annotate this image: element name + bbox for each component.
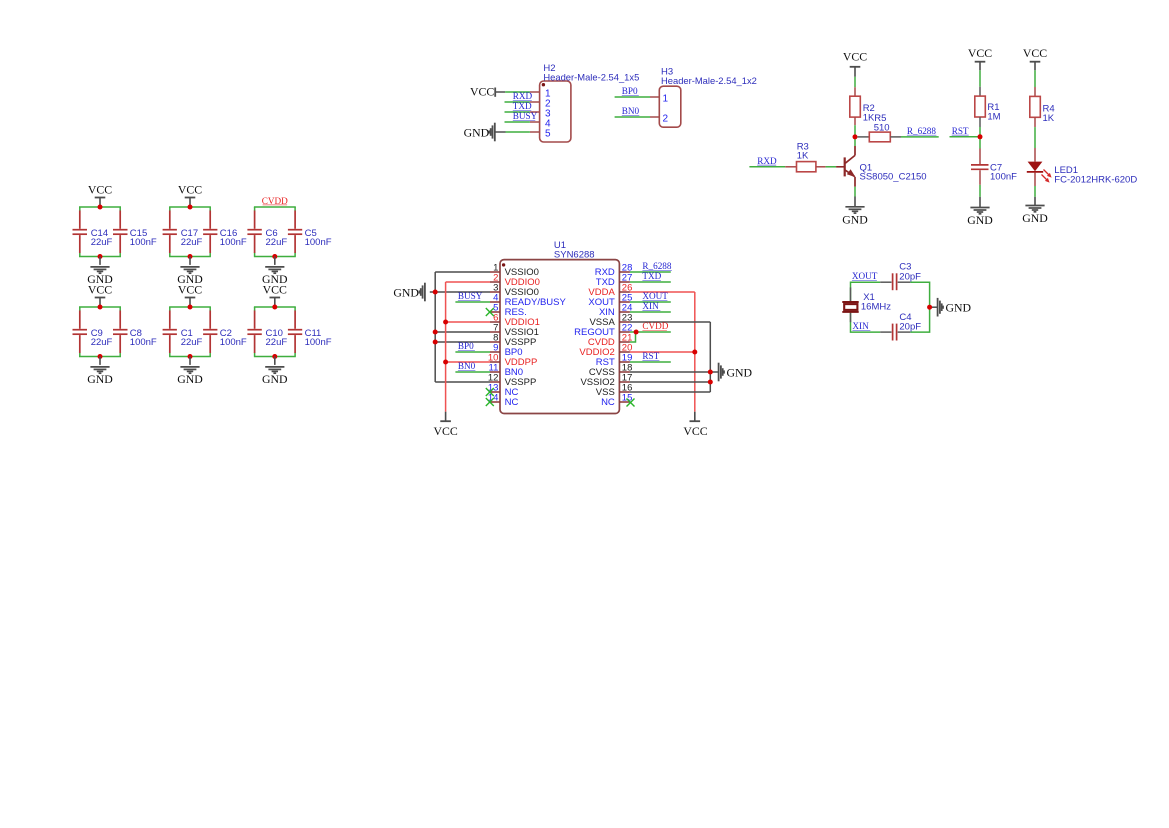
- pin 1 marker dot: [502, 263, 505, 266]
- capacitor C8: [113, 311, 157, 354]
- net label BUSY: [513, 111, 538, 121]
- svg-text:510: 510: [874, 122, 890, 133]
- ground: [177, 357, 203, 387]
- capacitor C9: [73, 311, 113, 354]
- wire: [455, 351, 490, 353]
- junction: [98, 205, 103, 210]
- resistor R5 510: [858, 113, 901, 142]
- wire: [435, 331, 490, 333]
- power flag VCC: [178, 283, 202, 307]
- svg-text:22uF: 22uF: [181, 337, 203, 348]
- svg-text:VCC: VCC: [88, 183, 112, 197]
- wire: [950, 136, 981, 138]
- pin 14 NC: [488, 393, 519, 409]
- wire: [615, 96, 650, 98]
- svg-text:RST: RST: [642, 351, 659, 361]
- svg-text:VCC: VCC: [88, 283, 112, 297]
- wire: [901, 136, 939, 138]
- wire: [446, 361, 490, 363]
- resistor R1 1M: [975, 87, 1001, 127]
- pin 13 NC: [488, 383, 519, 399]
- wire: [435, 341, 490, 343]
- svg-text:GND: GND: [464, 126, 490, 140]
- junction: [433, 330, 438, 335]
- svg-text:VCC: VCC: [1023, 46, 1047, 60]
- ic U1 SYN6288: [500, 240, 619, 413]
- power flag VCC: [843, 50, 867, 77]
- svg-text:22uF: 22uF: [91, 237, 113, 248]
- wire: [1034, 70, 1036, 87]
- svg-text:GND: GND: [842, 212, 868, 226]
- net label CVDD: [642, 321, 668, 331]
- pin 28 RXD: [595, 263, 633, 279]
- junction: [188, 205, 193, 210]
- svg-text:BP0: BP0: [622, 86, 638, 96]
- ground: [262, 257, 288, 287]
- wire: [446, 281, 490, 283]
- wire: [854, 125, 856, 146]
- ground: [967, 197, 993, 227]
- wire: [749, 166, 785, 168]
- wire: [254, 307, 296, 357]
- svg-text:RXD: RXD: [757, 156, 777, 166]
- junction: [188, 254, 193, 259]
- pin 18 CVSS: [589, 363, 632, 379]
- pin 6 VDDIO1: [490, 313, 540, 329]
- wire: [630, 321, 710, 323]
- capacitor C11: [288, 311, 332, 354]
- svg-text:XOUT: XOUT: [852, 271, 878, 281]
- wire: [630, 371, 719, 373]
- svg-text:100nF: 100nF: [220, 237, 247, 248]
- svg-text:VCC: VCC: [683, 424, 707, 438]
- pin 27 TXD: [596, 273, 633, 289]
- wire: [694, 292, 696, 412]
- svg-text:VCC: VCC: [263, 283, 287, 297]
- pin 7 VSSIO1: [490, 323, 539, 339]
- svg-text:VCC: VCC: [178, 283, 202, 297]
- power flag VCC: [968, 46, 992, 70]
- svg-text:1M: 1M: [987, 111, 1000, 122]
- svg-text:22uF: 22uF: [181, 237, 203, 248]
- svg-text:16MHz: 16MHz: [861, 302, 891, 313]
- capacitor C15: [113, 211, 157, 254]
- wire: [254, 207, 296, 257]
- pin 2 VDDIO0: [490, 273, 540, 289]
- wire: [630, 311, 671, 313]
- wire: [505, 121, 530, 123]
- capacitor C5: [288, 211, 332, 254]
- svg-text:20pF: 20pF: [899, 271, 921, 282]
- resistor R3 1K: [785, 141, 825, 172]
- junction: [98, 254, 103, 259]
- net label BUSY: [458, 291, 483, 301]
- svg-text:VCC: VCC: [470, 85, 494, 99]
- wire: [854, 77, 856, 87]
- wire: [169, 307, 211, 357]
- ground flag GND: [719, 363, 753, 382]
- ground flag GND: [393, 283, 425, 302]
- ground: [87, 357, 113, 387]
- pin 3: [530, 109, 551, 120]
- net label TXD: [642, 271, 661, 281]
- svg-text:RST: RST: [952, 126, 969, 136]
- wire: [630, 331, 671, 333]
- svg-text:VCC: VCC: [843, 50, 867, 64]
- pin 9 BP0: [490, 343, 523, 359]
- junction: [188, 354, 193, 359]
- svg-text:2: 2: [663, 114, 669, 125]
- pin 20 VDDIO2: [579, 343, 632, 359]
- svg-text:Header-Male-2.54_1x5: Header-Male-2.54_1x5: [543, 71, 639, 82]
- junction: [692, 350, 697, 355]
- pin 17 VSSIO2: [580, 373, 632, 389]
- net label BP0: [622, 86, 639, 96]
- pin 10 VDDPP: [488, 353, 538, 369]
- svg-text:CVDD: CVDD: [642, 321, 668, 331]
- capacitor C14: [73, 211, 113, 254]
- junction: [978, 134, 983, 139]
- wire: [505, 101, 530, 103]
- capacitor C16: [203, 211, 247, 254]
- svg-text:SYN6288: SYN6288: [554, 249, 595, 260]
- net label RXD: [757, 156, 777, 166]
- pin 24 XIN: [599, 303, 632, 319]
- wire: [434, 272, 436, 382]
- pin 22 REGOUT: [574, 323, 632, 339]
- wire: [855, 136, 858, 138]
- junction: [853, 134, 858, 139]
- svg-text:XOUT: XOUT: [642, 291, 668, 301]
- svg-text:VCC: VCC: [178, 183, 202, 197]
- pin 4: [530, 119, 551, 130]
- wire: [709, 322, 711, 392]
- pin 2: [650, 114, 669, 125]
- wire: [630, 271, 671, 273]
- header H2 Header-Male-2.54_1x5: [540, 63, 640, 142]
- pin 2: [530, 99, 551, 110]
- pin 11 BN0: [489, 363, 524, 379]
- net label XOUT: [852, 271, 878, 281]
- no-connect pin 13: [486, 388, 494, 396]
- junction: [443, 360, 448, 365]
- svg-text:XIN: XIN: [852, 321, 869, 331]
- junction: [708, 380, 713, 385]
- wire: [455, 301, 490, 303]
- no-connect pin 14: [486, 398, 494, 406]
- capacitor C10: [247, 311, 287, 354]
- svg-text:VCC: VCC: [968, 46, 992, 60]
- svg-text:GND: GND: [727, 365, 753, 379]
- pin 1: [650, 94, 669, 105]
- transistor Q1 SS8050_C2150: [836, 146, 926, 187]
- svg-text:BP0: BP0: [458, 341, 474, 351]
- svg-text:100nF: 100nF: [305, 237, 332, 248]
- junction: [188, 305, 193, 310]
- svg-text:GND: GND: [393, 285, 419, 299]
- wire: [630, 301, 671, 303]
- junction: [708, 370, 713, 375]
- ground: [87, 257, 113, 287]
- pin 23 VSSA: [589, 313, 632, 329]
- svg-text:XIN: XIN: [642, 301, 659, 311]
- svg-text:GND: GND: [87, 372, 113, 386]
- pin 1 marker dot: [542, 83, 545, 86]
- net label RXD: [513, 91, 533, 101]
- junction: [98, 354, 103, 359]
- svg-text:SS8050_C2150: SS8050_C2150: [860, 171, 927, 182]
- header H3 Header-Male-2.54_1x2: [659, 67, 757, 128]
- wire: [851, 282, 930, 332]
- pin 12 VSSPP: [488, 373, 536, 389]
- power flag VCC: [88, 283, 112, 307]
- net label BP0: [458, 341, 475, 351]
- net label RST: [642, 351, 659, 361]
- wire: [455, 371, 490, 373]
- capacitor C2: [203, 311, 247, 354]
- pin 1: [530, 89, 551, 100]
- wire: [630, 381, 710, 383]
- junction: [272, 254, 277, 259]
- wire: [505, 91, 530, 93]
- resistor R4 1K: [1030, 87, 1055, 127]
- wire: [79, 307, 121, 357]
- capacitor C3 20pF: [880, 262, 921, 291]
- power flag VCC: [263, 283, 287, 307]
- wire: [630, 361, 671, 363]
- wire: [506, 131, 530, 133]
- svg-text:100nF: 100nF: [130, 337, 157, 348]
- net label R_6288: [642, 261, 672, 271]
- svg-text:BUSY: BUSY: [513, 111, 538, 121]
- svg-text:NC: NC: [601, 397, 615, 408]
- capacitor C17: [163, 211, 203, 254]
- junction: [272, 354, 277, 359]
- wire: [826, 166, 837, 168]
- ground: [262, 357, 288, 387]
- svg-text:100nF: 100nF: [220, 337, 247, 348]
- wire: [979, 185, 981, 197]
- svg-text:GND: GND: [967, 213, 993, 227]
- wire: [630, 351, 695, 353]
- svg-text:R_6288: R_6288: [907, 126, 937, 136]
- wire: [430, 291, 490, 293]
- wire: [854, 187, 856, 197]
- power flag VCC: [1023, 46, 1047, 70]
- pin 26 VDDA: [588, 283, 632, 299]
- svg-text:20pF: 20pF: [899, 322, 921, 333]
- ground: [1022, 197, 1048, 225]
- capacitor C6: [247, 211, 287, 254]
- crystal X1 16MHz: [842, 287, 891, 322]
- svg-text:22uF: 22uF: [266, 337, 288, 348]
- svg-text:Header-Male-2.54_1x2: Header-Male-2.54_1x2: [661, 75, 757, 86]
- svg-text:BN0: BN0: [622, 106, 640, 116]
- wire: [435, 381, 490, 383]
- wire: [1034, 186, 1036, 197]
- net label XIN: [642, 301, 660, 311]
- svg-text:100nF: 100nF: [990, 172, 1017, 183]
- pin 5 RES.: [490, 303, 527, 319]
- svg-text:CVDD: CVDD: [262, 196, 288, 206]
- net label RST: [952, 126, 969, 136]
- svg-text:1K: 1K: [797, 151, 809, 162]
- svg-text:TXD: TXD: [513, 101, 532, 111]
- wire: [630, 391, 710, 393]
- wire: [630, 291, 695, 293]
- net label TXD: [513, 101, 532, 111]
- net label R_6288: [907, 126, 937, 136]
- wire: [979, 127, 981, 149]
- svg-text:100nF: 100nF: [130, 237, 157, 248]
- pin 21 CVDD: [588, 333, 633, 349]
- power flag VCC: [433, 412, 457, 438]
- pin 8 VSSPP: [490, 333, 536, 349]
- wire: [615, 116, 650, 118]
- net label BN0: [458, 361, 476, 371]
- svg-text:TXD: TXD: [642, 271, 661, 281]
- capacitor C1: [163, 311, 203, 354]
- svg-text:1: 1: [663, 94, 669, 105]
- svg-text:NC: NC: [505, 397, 519, 408]
- pin 15 NC: [601, 393, 632, 409]
- wire: [505, 111, 530, 113]
- junction: [433, 290, 438, 295]
- svg-text:FC-2012HRK-620D: FC-2012HRK-620D: [1054, 174, 1137, 185]
- svg-text:VCC: VCC: [433, 424, 457, 438]
- capacitor C4 20pF: [880, 312, 921, 341]
- junction: [927, 305, 932, 310]
- junction: [433, 340, 438, 345]
- wire: [79, 207, 121, 257]
- ground flag GND: [464, 123, 506, 142]
- power flag VCC: [178, 183, 202, 207]
- wire: [445, 282, 447, 412]
- svg-text:BN0: BN0: [458, 361, 476, 371]
- no-connect pin 5: [486, 308, 494, 316]
- svg-text:BUSY: BUSY: [458, 291, 483, 301]
- wire: [630, 281, 671, 283]
- ground: [177, 257, 203, 287]
- pin 1 VSSIO0: [490, 263, 539, 279]
- junction: [272, 305, 277, 310]
- pin 19 RST: [596, 353, 633, 369]
- wire: [169, 207, 211, 257]
- ground: [842, 197, 868, 227]
- junction: [443, 320, 448, 325]
- pin 5: [530, 129, 551, 140]
- led LED1 FC-2012HRK-620D: [1027, 148, 1138, 186]
- ground flag GND: [930, 298, 972, 317]
- wire: [1034, 127, 1036, 148]
- svg-text:RXD: RXD: [513, 91, 533, 101]
- svg-text:5: 5: [545, 129, 551, 140]
- wire: [630, 332, 636, 342]
- no-connect pin 15: [627, 399, 635, 407]
- svg-text:R_6288: R_6288: [642, 261, 672, 271]
- junction: [98, 305, 103, 310]
- svg-text:1K: 1K: [1043, 113, 1055, 124]
- net label CVDD: [262, 196, 288, 206]
- svg-text:GND: GND: [1022, 211, 1048, 225]
- net label XIN: [852, 321, 870, 331]
- wire: [446, 321, 490, 323]
- wire: [979, 70, 981, 86]
- svg-text:GND: GND: [946, 300, 972, 314]
- pin 4 READY/BUSY: [490, 293, 567, 309]
- resistor R2 1K: [850, 87, 875, 125]
- svg-text:100nF: 100nF: [305, 337, 332, 348]
- power flag VCC: [88, 183, 112, 207]
- svg-text:22uF: 22uF: [266, 237, 288, 248]
- svg-text:GND: GND: [262, 372, 288, 386]
- power flag VCC: [683, 412, 707, 438]
- net label XOUT: [642, 291, 668, 301]
- power flag VCC: [470, 85, 505, 99]
- junction: [634, 330, 639, 335]
- pin 3 VSSIO0: [490, 283, 539, 299]
- svg-text:22uF: 22uF: [91, 337, 113, 348]
- pin 25 XOUT: [588, 293, 632, 309]
- wire: [435, 271, 490, 273]
- pin 16 VSS: [596, 383, 633, 399]
- net label BN0: [622, 106, 640, 116]
- capacitor C7 100nF: [971, 149, 1017, 185]
- svg-text:GND: GND: [177, 372, 203, 386]
